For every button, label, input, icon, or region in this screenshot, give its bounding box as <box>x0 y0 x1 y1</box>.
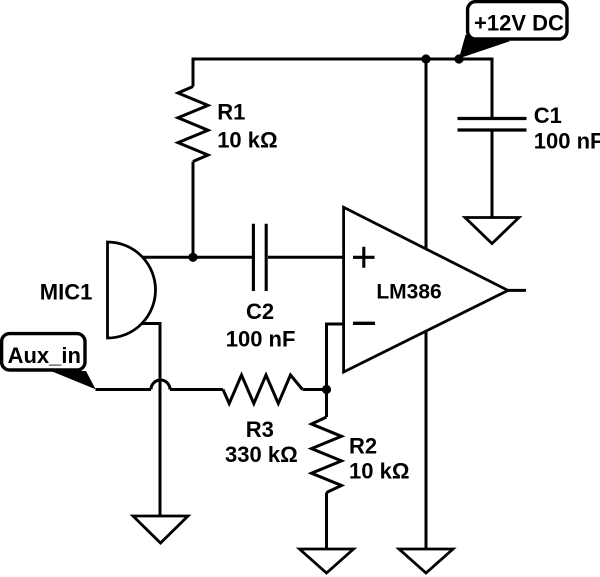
svg-text:330 kΩ: 330 kΩ <box>225 442 298 467</box>
svg-text:Aux_in: Aux_in <box>8 343 81 368</box>
svg-text:10 kΩ: 10 kΩ <box>349 458 409 483</box>
svg-text:C2: C2 <box>246 299 274 324</box>
svg-text:C1: C1 <box>534 103 562 128</box>
svg-text:100 nF: 100 nF <box>226 327 296 352</box>
svg-text:R3: R3 <box>246 417 274 442</box>
svg-text:LM386: LM386 <box>376 281 441 304</box>
svg-text:MIC1: MIC1 <box>40 280 93 305</box>
svg-text:R2: R2 <box>349 434 377 459</box>
svg-text:+12V DC: +12V DC <box>474 11 564 36</box>
svg-text:10 kΩ: 10 kΩ <box>217 128 277 153</box>
svg-text:100 nF: 100 nF <box>534 128 600 153</box>
svg-text:R1: R1 <box>217 100 245 125</box>
